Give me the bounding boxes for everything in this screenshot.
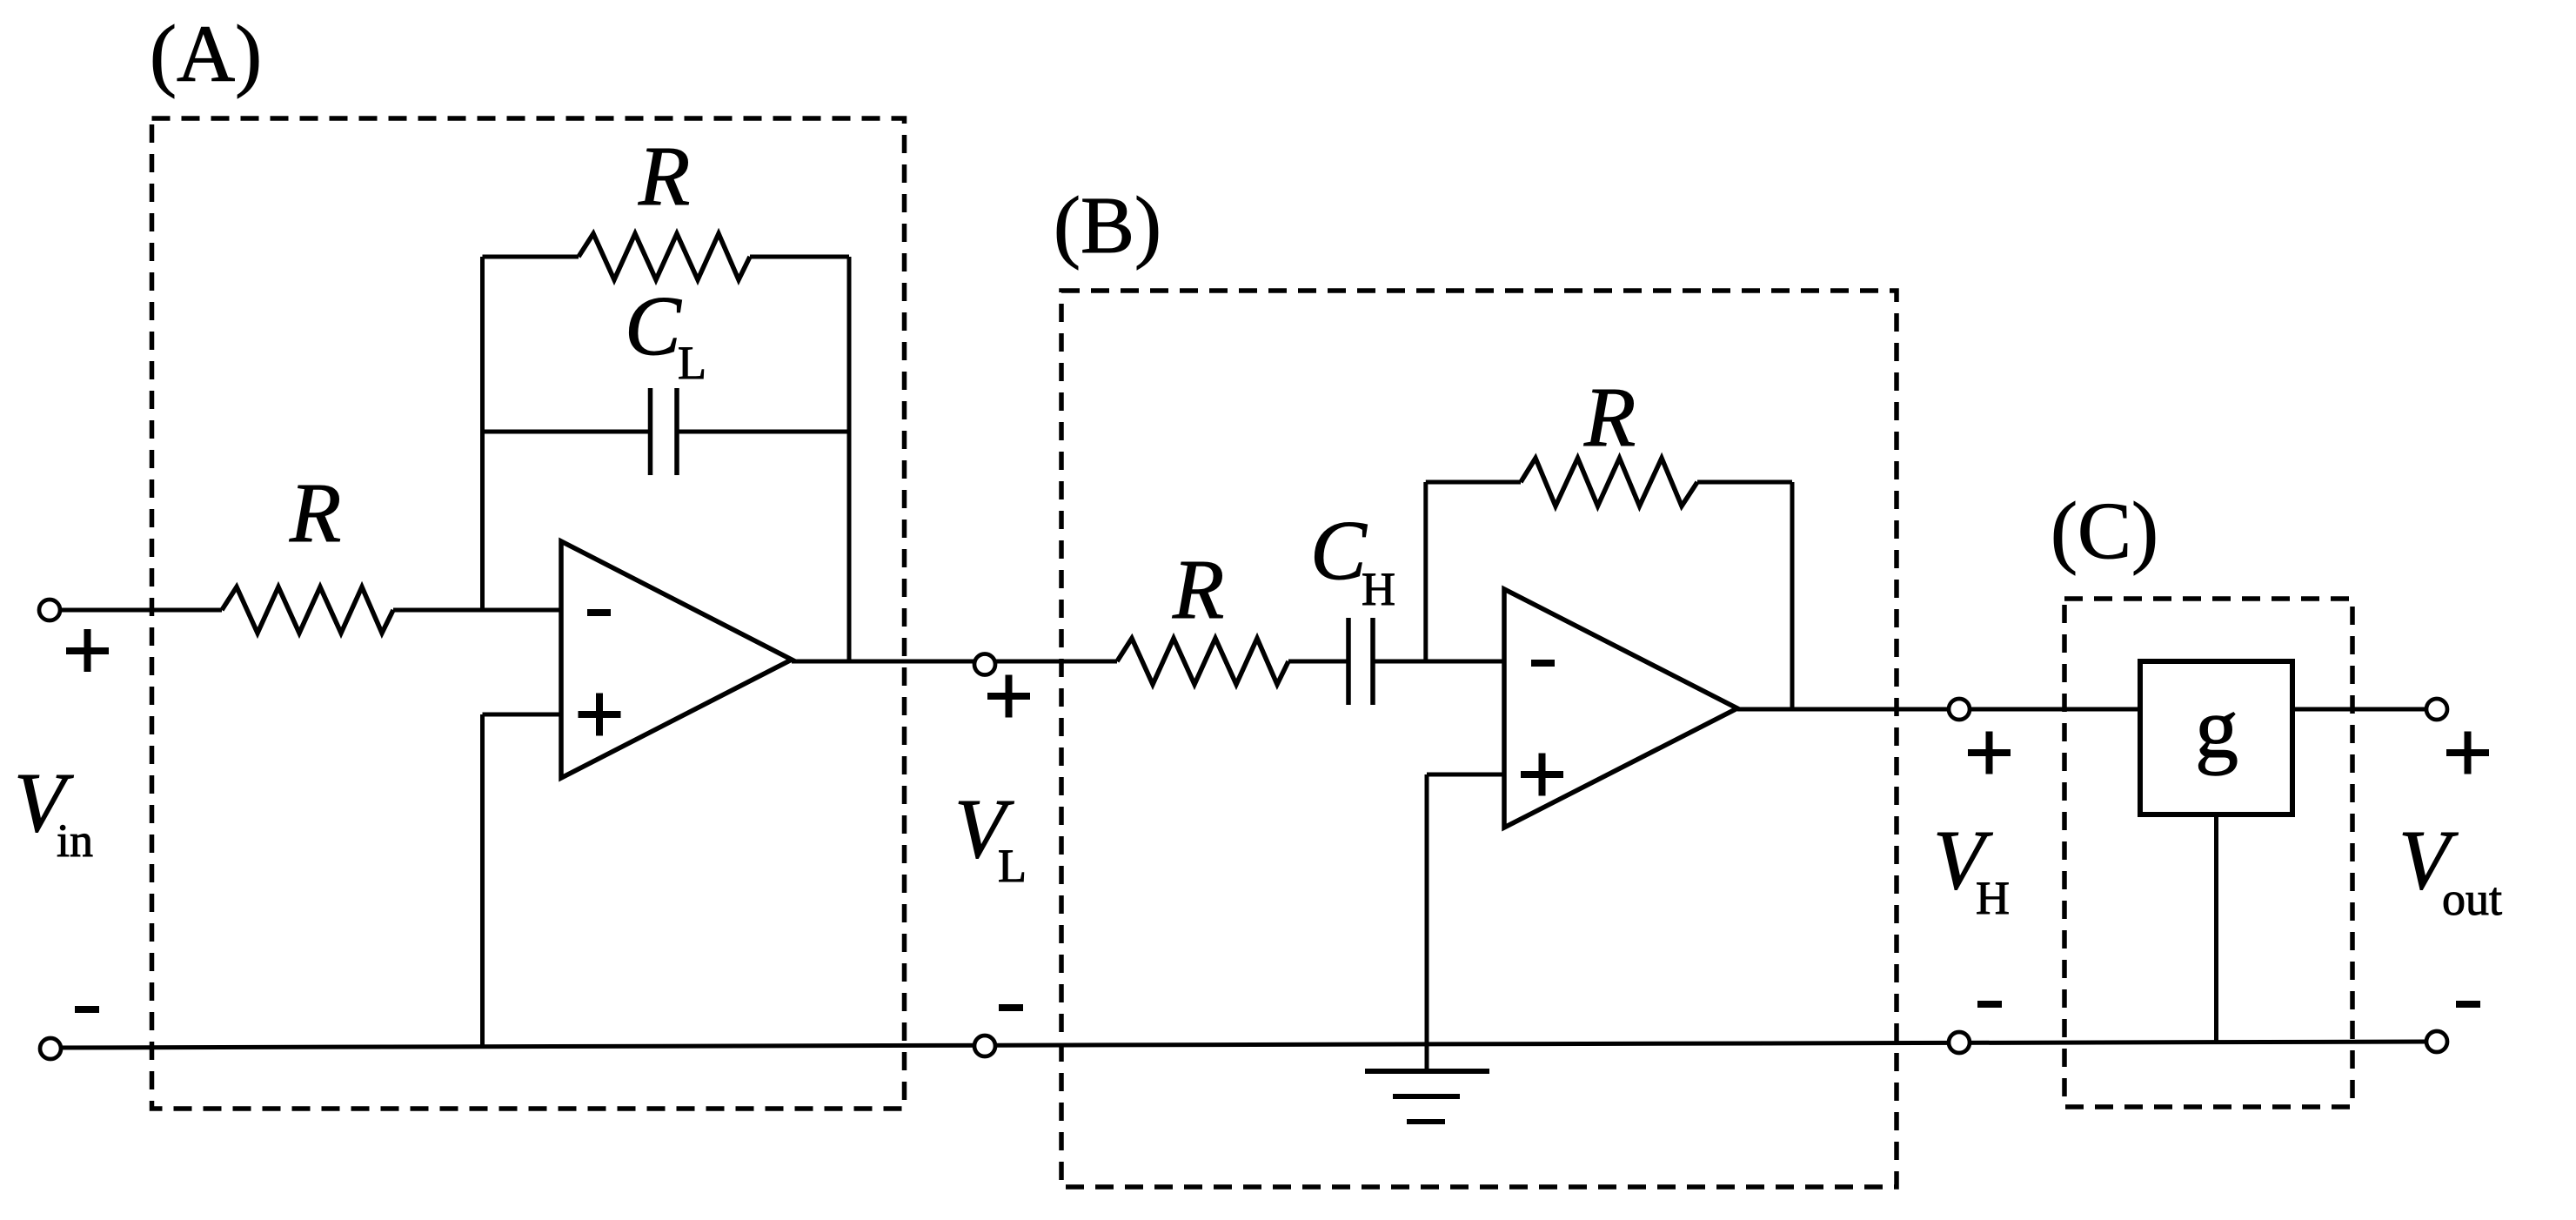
node Vin- terminal xyxy=(40,1038,61,1059)
wire g box bottom to rail xyxy=(2214,814,2218,1042)
wire R3 to capacitor CH xyxy=(1288,660,1348,664)
minus mark VL xyxy=(999,1004,1023,1011)
resistor R4 (feedback of B) xyxy=(1521,459,1697,506)
svg-text:H: H xyxy=(1976,872,2010,924)
node VL+ terminal xyxy=(974,654,995,675)
svg-text:L: L xyxy=(998,840,1027,892)
wire U2 plus input horizontal xyxy=(1427,773,1504,777)
plus mark U2 non-inverting xyxy=(1521,771,1563,778)
node Vout- terminal xyxy=(2426,1031,2447,1052)
wire g box to Vout terminal xyxy=(2292,707,2426,712)
ground xyxy=(1365,1069,1489,1074)
node Vin+ terminal xyxy=(39,600,60,620)
resistor R2 (feedback of A) xyxy=(579,234,750,280)
svg-text:in: in xyxy=(57,814,93,867)
svg-text:C: C xyxy=(1310,504,1368,597)
svg-text:H: H xyxy=(1362,563,1395,615)
amplifier block g xyxy=(2140,661,2292,814)
node VH- terminal xyxy=(1949,1032,1970,1053)
plus mark VL xyxy=(987,693,1030,700)
resistor R3 (input of B) xyxy=(1117,639,1288,685)
wire feedback B top left segment xyxy=(1426,480,1521,485)
capacitor CH plates xyxy=(1346,618,1351,705)
plus mark Vout xyxy=(2446,749,2489,756)
minus mark U1 inverting xyxy=(587,609,611,616)
svg-text:g: g xyxy=(2195,680,2238,776)
block A dashed box xyxy=(152,118,905,1109)
wire capacitor CL right xyxy=(677,430,849,434)
resistor R1 (input of A) xyxy=(222,587,393,633)
svg-text:(A): (A) xyxy=(150,10,262,99)
wire feedback right vertical down to U1 output xyxy=(847,257,852,661)
svg-text:(C): (C) xyxy=(2051,486,2158,576)
wire R1 to op-amp U1 inverting input xyxy=(393,608,561,613)
plus mark Vin xyxy=(66,647,109,654)
plus mark VH xyxy=(1968,749,2011,756)
op-amp U1 triangle xyxy=(561,541,792,778)
wire U2 plus input down to ground xyxy=(1425,774,1429,1071)
node VH+ terminal xyxy=(1949,699,1970,720)
op-amp U2 triangle xyxy=(1504,589,1737,828)
minus mark Vout xyxy=(2456,1001,2480,1008)
minus mark Vin xyxy=(75,1006,99,1013)
svg-text:C: C xyxy=(625,279,682,372)
wire feedback top left segment xyxy=(483,255,579,259)
block B dashed box xyxy=(1061,291,1897,1187)
wire U2 output to VH terminal and g box xyxy=(1737,707,2140,712)
wire U1 output to VL terminal and into B xyxy=(792,660,1117,664)
svg-text:out: out xyxy=(2442,873,2502,925)
wire capacitor CL left xyxy=(483,430,651,434)
svg-text:R: R xyxy=(1172,543,1224,636)
capacitor CL plates xyxy=(648,388,653,475)
minus mark U2 inverting xyxy=(1531,660,1555,667)
minus mark VH xyxy=(1977,1001,2002,1008)
wire Vin+ to resistor R1 xyxy=(61,608,222,613)
wire feedback top right segment xyxy=(750,255,849,259)
block C dashed box xyxy=(2064,599,2352,1107)
svg-text:R: R xyxy=(638,130,690,223)
wire CH to op-amp U2 inverting input xyxy=(1373,660,1504,664)
svg-text:R: R xyxy=(1583,371,1636,464)
node VL- terminal xyxy=(974,1036,995,1056)
node Vout+ terminal xyxy=(2426,699,2447,720)
svg-text:L: L xyxy=(678,337,706,389)
bottom rail wire xyxy=(50,1042,2437,1048)
svg-text:R: R xyxy=(289,466,341,560)
svg-text:(B): (B) xyxy=(1054,181,1161,271)
wire feedback B left vertical xyxy=(1423,482,1428,661)
wire feedback B top right segment xyxy=(1697,480,1792,485)
wire U1 plus input down to bottom rail xyxy=(480,714,485,1045)
wire feedback left vertical (node at U1 minus input) xyxy=(480,257,485,610)
plus mark U1 non-inverting xyxy=(579,711,621,718)
wire feedback B right vertical down to U2 output xyxy=(1790,482,1795,709)
wire U1 plus input horizontal xyxy=(483,713,562,717)
